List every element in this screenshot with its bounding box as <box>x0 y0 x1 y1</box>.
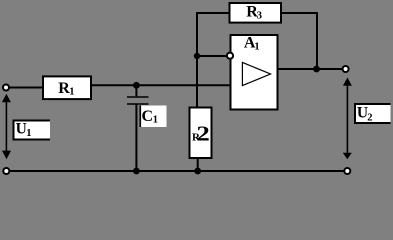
terminal: input top <box>3 85 9 91</box>
wire: input top lead <box>6 87 43 89</box>
wire: feedback riser right <box>316 13 318 69</box>
junction: C1 top <box>133 82 140 89</box>
label U1 <box>14 121 51 140</box>
wire: node to op-amp input <box>197 55 227 57</box>
svg-text:3: 3 <box>257 11 262 22</box>
wire: output <box>278 68 343 70</box>
svg-text:1: 1 <box>26 128 31 139</box>
arrow U2 <box>343 78 352 160</box>
terminal: output bottom <box>344 168 350 174</box>
svg-text:U: U <box>16 121 27 138</box>
wire: R2 bottom lead <box>197 158 199 171</box>
svg-text:2: 2 <box>196 122 209 146</box>
wire: bottom rail <box>10 170 344 172</box>
arrow U1 <box>2 94 11 160</box>
resistor R2 <box>190 108 212 159</box>
resistor R3 <box>230 3 282 23</box>
svg-text:1: 1 <box>153 115 158 126</box>
junction: inverting input node <box>194 53 200 59</box>
terminal: input bottom <box>3 168 9 174</box>
op-amp input inversion circle <box>227 53 233 59</box>
terminal: output top <box>343 66 349 72</box>
label C1 <box>140 106 167 128</box>
wire: main node wire <box>91 84 231 86</box>
resistor R1 <box>43 76 91 99</box>
junction: C1 bottom <box>133 168 140 175</box>
wire: R2 top lead / node vertical <box>196 56 198 108</box>
svg-text:1: 1 <box>69 87 74 98</box>
junction: output node <box>313 66 320 73</box>
op-amp A1 <box>231 35 278 110</box>
junction: R2 bottom <box>194 168 201 175</box>
svg-text:2: 2 <box>367 112 372 123</box>
wire: feedback top left <box>196 12 230 14</box>
svg-text:1: 1 <box>254 42 259 53</box>
wire: feedback top right <box>281 12 318 14</box>
svg-text:C: C <box>142 108 154 125</box>
capacitor C1 <box>127 85 149 171</box>
wire: feedback riser left <box>196 13 198 56</box>
label U2 <box>355 104 391 123</box>
